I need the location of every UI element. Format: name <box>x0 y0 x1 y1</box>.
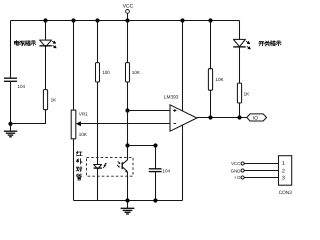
svg-text:CON3: CON3 <box>279 190 293 196</box>
svg-text:2: 2 <box>282 168 285 174</box>
node junction dots on top rail <box>43 18 47 22</box>
wire IO pin lead <box>244 177 278 179</box>
label kaiguan zhishi (switch indicator) <box>259 41 281 46</box>
svg-text:104: 104 <box>162 168 170 173</box>
power VCC symbol <box>123 4 134 21</box>
resistor R3 10K <box>126 63 141 82</box>
node output / R5 junction <box>237 115 241 119</box>
node junction left ground <box>8 122 12 126</box>
ground center <box>121 201 135 215</box>
svg-text:10K: 10K <box>132 70 141 75</box>
svg-text:VCC: VCC <box>123 4 134 10</box>
resistor R5 1K <box>237 83 250 103</box>
wire junction down to Q1 collector <box>127 146 129 161</box>
svg-text:1K: 1K <box>51 98 58 103</box>
wire rail to R3 <box>127 21 129 63</box>
svg-text:VR1: VR1 <box>79 111 88 116</box>
wire GND pin lead <box>244 170 278 172</box>
wire rail corner to D2 anode <box>239 21 241 40</box>
svg-text:1: 1 <box>282 161 285 167</box>
wire rail to R2 <box>97 21 99 63</box>
svg-text:1K: 1K <box>244 92 251 97</box>
wire U1 V- pin to bottom rail <box>182 125 184 201</box>
LED D1 power indicator <box>39 40 57 48</box>
wire C2 top <box>155 146 157 169</box>
wire U1 output to IO port <box>197 117 247 119</box>
wire Q1 emitter to bottom rail <box>127 172 129 201</box>
svg-text:10K: 10K <box>79 132 88 137</box>
wire left branch down to C1 <box>10 21 12 78</box>
resistor R1 1K <box>43 90 57 110</box>
wire node down to collector junction <box>127 111 129 146</box>
op-amp U1 LM393 <box>164 94 197 131</box>
wire rail to R4 <box>210 21 212 69</box>
wire D1 cathode to R1 <box>45 46 47 89</box>
node output / R4 junction <box>208 115 212 119</box>
wire junction to C2 branch <box>128 145 156 147</box>
resistor R2 100 <box>96 63 111 82</box>
capacitor C1 104 <box>4 78 26 89</box>
node collector / C2 junction <box>125 143 129 147</box>
wire VCC pin lead <box>244 163 278 165</box>
capacitor C2 104 <box>149 168 171 173</box>
wire D3 cathode to bottom rail <box>97 169 99 201</box>
resistor R4 10K <box>208 69 224 91</box>
node C2 top junction <box>153 143 157 147</box>
connector J1 CON3 <box>231 156 293 196</box>
wire rail to D1 anode <box>45 21 47 41</box>
wire D2 cathode to R5 <box>239 47 241 83</box>
potentiometer VR1 10K <box>71 110 88 139</box>
port IO tag <box>247 114 267 122</box>
wire R3 to non-inverting node <box>127 82 129 111</box>
svg-text:104: 104 <box>17 84 25 89</box>
phototransistor Q1 <box>117 160 128 173</box>
LED D2 switch indicator <box>233 39 251 49</box>
wire VR1 bottom to bottom rail <box>73 139 75 201</box>
wire top VCC rail <box>11 20 240 22</box>
wire C1 bottom to ground node <box>10 82 12 125</box>
svg-text:GND: GND <box>231 168 241 173</box>
wire rail to VR1 top <box>73 21 75 111</box>
svg-text:VCC: VCC <box>231 161 240 166</box>
wire R5 to output node <box>239 103 241 118</box>
IR LED D3 <box>93 163 106 169</box>
node bottom rail junction at C2 <box>153 198 157 202</box>
dashed box infrared pair module <box>87 157 134 176</box>
svg-text:3: 3 <box>282 175 285 181</box>
svg-text:100: 100 <box>102 70 110 75</box>
wire rail to U1 V+ pin <box>182 21 184 112</box>
wire R4 to output node <box>210 90 212 117</box>
wire R2 to IR LED D3 <box>97 82 99 164</box>
ground left <box>4 124 17 137</box>
svg-text:IO: IO <box>253 116 258 122</box>
svg-text:10K: 10K <box>215 77 224 82</box>
wire C2 bottom to rail <box>155 172 157 201</box>
wire bottom ground rail <box>74 200 183 202</box>
wire VR1 wiper to U1 inverting input <box>81 123 171 125</box>
svg-text:I O: I O <box>235 175 241 180</box>
label dianyuan zhishi (power indicator) <box>14 40 35 45</box>
node non-inverting input junction <box>125 108 129 112</box>
label hongwai duiguan (infrared pair) vertical <box>77 151 83 180</box>
svg-text:LM393: LM393 <box>164 94 179 100</box>
wire bottom of R1 to ground node <box>11 110 46 124</box>
wire node to U1 non-inverting input <box>128 110 171 112</box>
node bottom rail junction at Q1 <box>125 198 129 202</box>
